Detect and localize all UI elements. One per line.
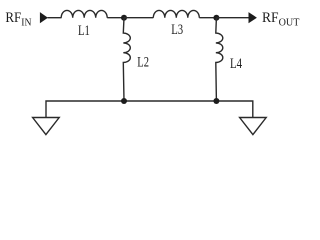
svg-text:L1: L1 (78, 23, 90, 39)
wire L3 to node B (199, 17, 216, 19)
svg-text:L4: L4 (230, 56, 242, 72)
inductor L1 (61, 10, 107, 17)
wire L1 to node A (107, 17, 124, 19)
output terminal arrow (249, 12, 257, 23)
svg-text:L2: L2 (137, 54, 149, 70)
svg-text:L3: L3 (171, 22, 183, 38)
ground symbol right (240, 118, 267, 135)
bottom junction dot under L4 (213, 98, 219, 104)
input terminal arrow (40, 12, 48, 23)
svg-text:RFIN: RFIN (5, 10, 31, 28)
wire input to L1 (48, 17, 62, 19)
ground symbol left (33, 118, 60, 135)
inductor L4 (shunt) (216, 18, 223, 101)
svg-text:RFOUT: RFOUT (262, 10, 300, 28)
node A junction dot (121, 15, 127, 21)
node B junction dot (213, 15, 219, 21)
ground rail wire (46, 101, 253, 118)
wire node B to output (216, 17, 249, 19)
wire node A to L3 (124, 17, 153, 19)
inductor L3 (153, 10, 199, 17)
bottom junction dot under L2 (121, 98, 127, 104)
inductor L2 (shunt) (123, 18, 130, 101)
